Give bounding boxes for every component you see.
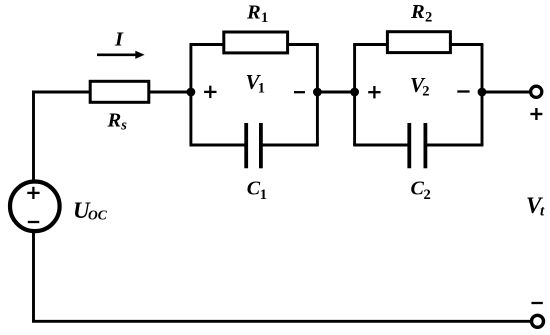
svg-text:1: 1 [261, 10, 268, 26]
label Vt [526, 193, 545, 220]
svg-text:C: C [247, 178, 261, 200]
node C junction [350, 88, 359, 97]
svg-text:2: 2 [425, 10, 432, 26]
node D junction [478, 88, 487, 97]
svg-text:R: R [410, 1, 425, 23]
label R1 [246, 2, 268, 27]
wire from source top up-left corner to Rs [34, 92, 91, 180]
wire Rs to node A [150, 91, 192, 94]
label C1 [247, 178, 267, 204]
current arrow [97, 51, 145, 59]
wire block2 right vertical [481, 45, 484, 146]
resistor R2 [387, 32, 450, 53]
label R2 [410, 1, 432, 26]
svg-text:1: 1 [258, 80, 265, 96]
svg-text:R: R [246, 2, 261, 24]
polarity - of V1 [294, 91, 305, 93]
label + at positive terminal [530, 108, 542, 120]
wire source bottom to bottom rail corner [32, 233, 35, 323]
node B junction [313, 88, 322, 97]
wire node B to node C [317, 91, 354, 94]
svg-text:C: C [411, 178, 425, 200]
label V2 [410, 73, 430, 99]
wire bottom rail [32, 320, 531, 323]
capacitor C1 [246, 123, 261, 168]
polarity + of V1 [204, 86, 216, 98]
node A junction [187, 88, 196, 97]
wire block1 right vertical [316, 45, 319, 146]
svg-text:I: I [114, 29, 124, 51]
+ inside source [27, 187, 39, 199]
wire block1 top rail [190, 43, 319, 46]
polarity - of V2 [457, 90, 469, 92]
label V1 [246, 70, 266, 96]
label Rs [107, 110, 128, 134]
wire node D to positive terminal [482, 91, 530, 94]
resistor R1 [224, 32, 288, 53]
svg-text:OC: OC [88, 208, 108, 223]
svg-text:1: 1 [260, 187, 267, 203]
negative terminal circle [532, 315, 544, 327]
label Uoc [73, 198, 108, 223]
svg-text:s: s [120, 118, 127, 134]
wire block1 bottom rail [190, 144, 319, 147]
wire block1 left vertical [189, 45, 192, 146]
svg-text:2: 2 [422, 83, 429, 99]
svg-text:R: R [107, 110, 122, 132]
capacitor C2 [409, 123, 425, 168]
svg-text:2: 2 [424, 187, 431, 203]
label - at negative terminal [531, 302, 542, 304]
wire block2 left vertical [353, 45, 356, 146]
wire block2 bottom rail [353, 144, 483, 147]
polarity + of V2 [368, 86, 380, 98]
positive terminal circle [531, 86, 542, 97]
voltage source Uoc circle [10, 182, 60, 232]
wire block2 top rail [353, 43, 483, 46]
- inside source [28, 221, 40, 223]
resistor Rs [90, 81, 149, 102]
label C2 [411, 178, 431, 204]
